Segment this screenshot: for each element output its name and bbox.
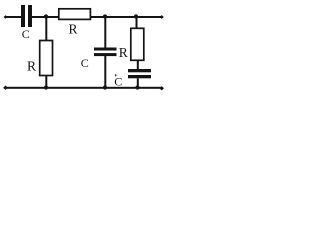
- wire bottom rail: [5, 87, 163, 89]
- wire: junction A down to R2: [45, 16, 47, 41]
- svg-text:C: C: [114, 75, 122, 89]
- svg-text:R: R: [68, 21, 77, 36]
- node junction bottom-right (x=137.5): [135, 85, 139, 89]
- wire top: R1 to right terminal: [91, 16, 162, 18]
- wire: junction B down to C2: [104, 16, 106, 48]
- node input terminal bottom-left: [3, 86, 8, 90]
- wire: R2 down to bottom rail: [45, 76, 47, 89]
- wire top: terminal to C1: [5, 16, 22, 18]
- wire: R3 down to C3: [137, 60, 139, 69]
- capacitor C2 (middle shunt): [94, 48, 117, 57]
- node junction B (top, x=105): [103, 14, 107, 18]
- wire: C3 down to bottom rail: [137, 78, 139, 88]
- node junction bottom-left (x=46): [44, 85, 48, 89]
- capacitor C1 (series, top-left): [21, 5, 32, 27]
- svg-text:C: C: [22, 27, 30, 41]
- node junction bottom-middle (x=105): [103, 85, 107, 89]
- svg-text:R: R: [27, 58, 36, 73]
- node input terminal top-left: [4, 15, 8, 19]
- node output terminal top-right: [160, 15, 164, 19]
- node junction C (top, x=136): [134, 14, 138, 18]
- node junction A (top, x=46): [44, 14, 48, 18]
- wire top: C1 to R1 box: [32, 16, 59, 18]
- resistor R2 (left vertical): [40, 41, 53, 76]
- node speck above label C3: [115, 74, 117, 76]
- resistor R1 (top horizontal): [59, 9, 91, 20]
- svg-text:R: R: [119, 45, 128, 60]
- wire: junction C down to R3: [136, 16, 138, 29]
- capacitor C3 (bottom-right shunt): [128, 69, 151, 78]
- node output terminal bottom-right: [159, 86, 164, 90]
- wire: C2 down to bottom rail: [104, 56, 106, 88]
- resistor R3 (right vertical): [131, 28, 144, 60]
- svg-text:C: C: [81, 56, 89, 70]
